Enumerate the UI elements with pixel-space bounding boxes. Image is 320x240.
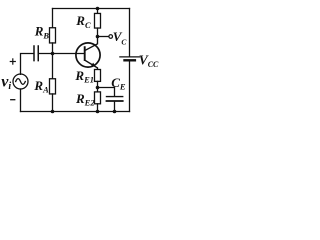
node: RA-ground	[51, 110, 55, 114]
wire: bottom ground rail	[21, 111, 130, 113]
resistor RC	[95, 9, 101, 37]
wire: right border top (to VCC +)	[129, 9, 131, 57]
wire: right border bottom (VCC - to ground rail)	[129, 62, 131, 112]
wire: CE to ground rail	[114, 102, 116, 112]
plus sign (source polarity)	[10, 58, 16, 64]
source vi (sine source circle)	[13, 74, 28, 89]
node: base / divider junction	[51, 52, 55, 56]
resistor RE1	[95, 70, 101, 88]
node: emitter junction (RE1/RE2/CE)	[96, 86, 100, 90]
wire: capacitor to base	[39, 53, 85, 55]
resistor RE2	[95, 88, 101, 112]
battery VCC negative plate	[125, 59, 135, 61]
capacitor C1 (input coupling)	[34, 46, 38, 61]
node: CE-ground	[113, 110, 117, 114]
resistor RB	[50, 9, 56, 54]
battery VCC positive plate	[120, 56, 140, 58]
wire: VC stub	[98, 36, 109, 38]
transistor Q1 (npn BJT)	[76, 37, 100, 70]
wire: source bottom lead	[20, 89, 22, 112]
wire: emitter junction to CE	[98, 88, 115, 97]
wire: source top lead	[21, 54, 34, 75]
node: top rail / RC junction	[96, 7, 100, 11]
minus sign (source polarity)	[10, 99, 15, 101]
terminal VC (open circle)	[109, 35, 113, 39]
node: collector junction	[96, 35, 100, 39]
capacitor CE (emitter bypass)	[107, 97, 123, 101]
wire: top supply rail	[53, 8, 130, 10]
resistor RA	[50, 54, 56, 112]
node: RE2-ground	[96, 110, 100, 114]
